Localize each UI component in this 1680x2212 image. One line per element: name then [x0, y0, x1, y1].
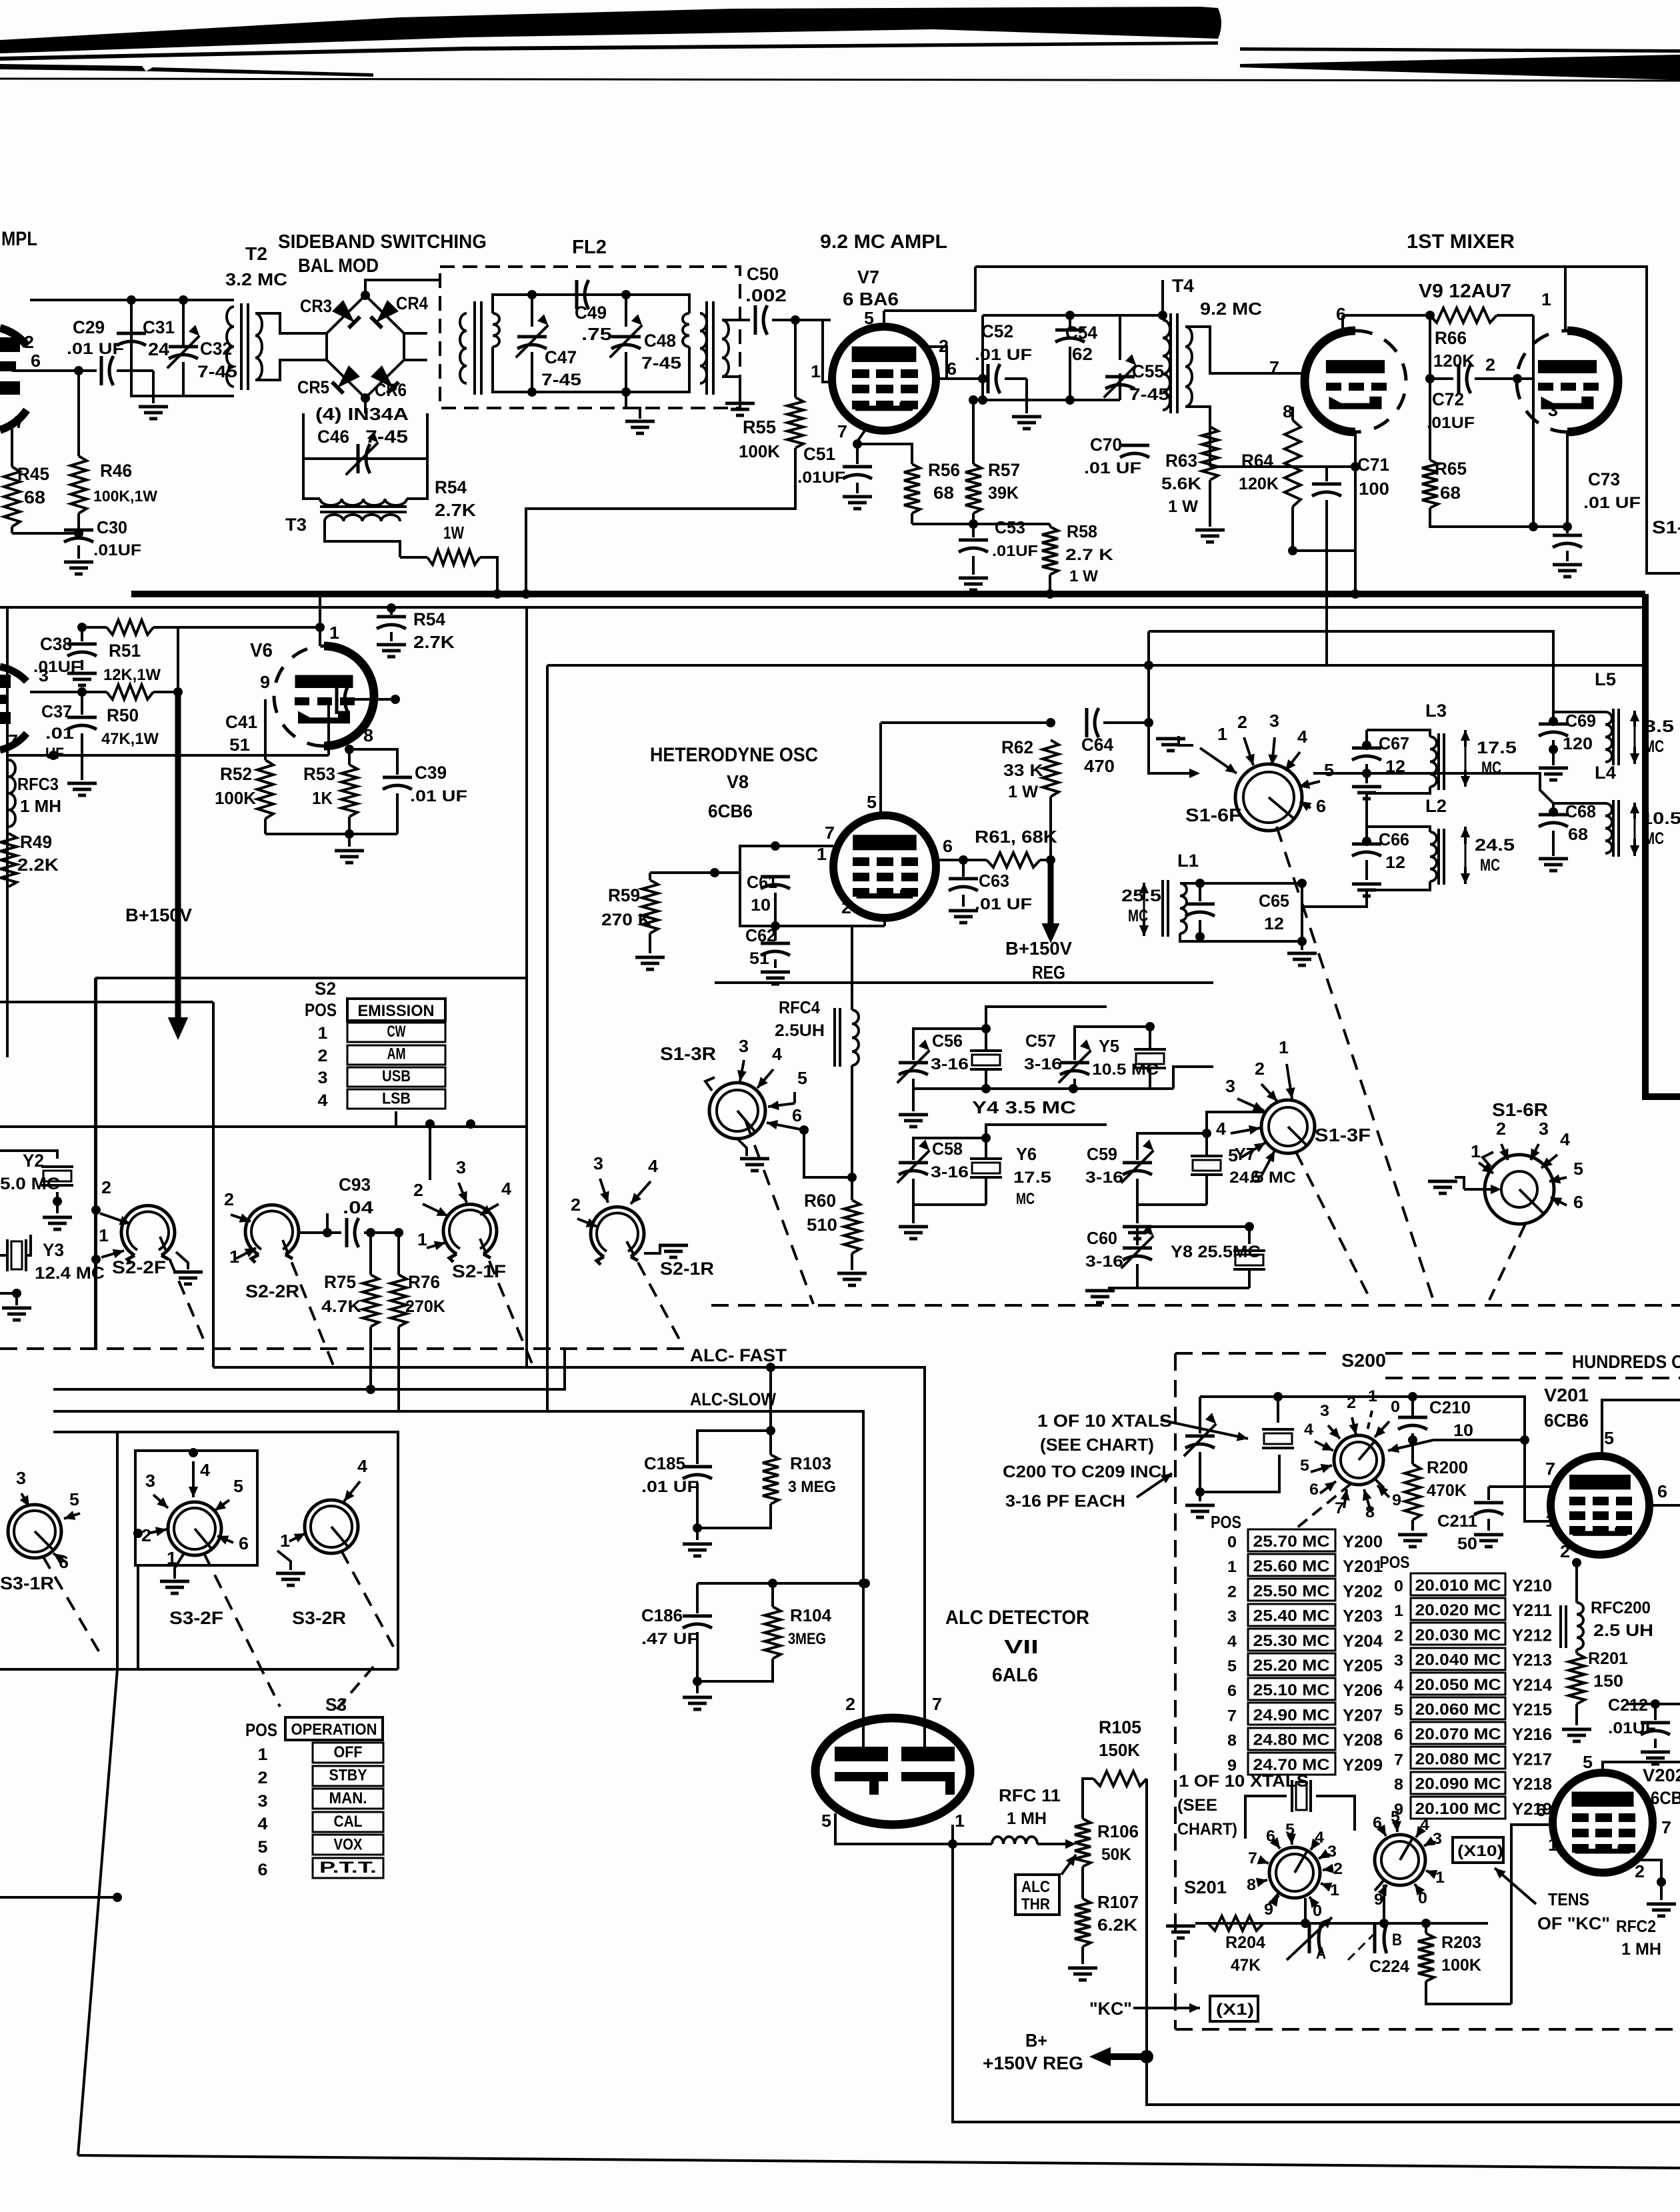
wire C54 bottom [1069, 363, 1071, 400]
wire R57 top [969, 379, 1070, 464]
svg-text:Y206: Y206 [1343, 1681, 1383, 1700]
svg-text:.01 UF: .01 UF [1583, 494, 1641, 512]
wire R51 right down [153, 627, 178, 692]
wire R59 row [650, 846, 740, 877]
label FL2 [572, 237, 607, 258]
S1-6R dashed gang [1489, 1224, 1525, 1300]
svg-text:(SEE: (SEE [1177, 1796, 1217, 1815]
svg-text:Y218: Y218 [1512, 1775, 1552, 1794]
svg-text:68: 68 [24, 487, 45, 507]
svg-text:24.80 MC: 24.80 MC [1253, 1731, 1330, 1749]
svg-text:S1-: S1- [1652, 517, 1680, 537]
tube V11 [815, 1718, 970, 1825]
svg-text:C67: C67 [1379, 733, 1409, 753]
label ALC DETECTOR [945, 1607, 1089, 1629]
svg-text:Y3: Y3 [43, 1240, 64, 1260]
wire T4 bottom [1185, 407, 1210, 467]
svg-text:6: 6 [1251, 1167, 1261, 1187]
rotary switch S1-6R [1485, 1099, 1554, 1224]
S2-1R dashed gang [627, 1241, 683, 1347]
scan artifact right band [1240, 47, 1680, 80]
svg-text:HUNDREDS OF: HUNDREDS OF [1572, 1351, 1680, 1372]
svg-text:CR4: CR4 [396, 293, 428, 313]
label HUNDREDS OF [1572, 1351, 1680, 1372]
svg-text:8: 8 [363, 725, 373, 745]
S200 n1 [1367, 1387, 1377, 1433]
variable capacitor C32 [167, 325, 237, 396]
svg-text:Y202: Y202 [1343, 1582, 1383, 1601]
svg-text:C61: C61 [747, 872, 777, 892]
svg-text:3: 3 [1227, 1608, 1237, 1626]
pin5 V201 [1604, 1428, 1614, 1448]
label BAL MOD [298, 255, 379, 277]
label R54 value [0, 0, 1, 1]
svg-text:62: 62 [1072, 344, 1093, 364]
svg-text:6: 6 [1657, 1481, 1667, 1501]
svg-text:4: 4 [772, 1044, 783, 1064]
svg-text:4: 4 [648, 1156, 659, 1176]
svg-text:9: 9 [1392, 1491, 1401, 1509]
S1-3F contact 4 [1216, 1119, 1260, 1139]
pin5 V202 [1583, 1752, 1680, 1773]
wire pin6 row [12, 369, 97, 372]
resistor R49 [1, 832, 59, 887]
S2-2R contact 1 [229, 1247, 256, 1267]
svg-text:.01 UF: .01 UF [410, 787, 467, 805]
pin5 V11 [821, 1811, 831, 1831]
thick signal bus wire [131, 591, 1645, 597]
S1-6F contact 5 [1299, 760, 1334, 789]
het box left [546, 665, 549, 1411]
S1 wafer ground [1287, 883, 1317, 965]
S2-1F contact 4 [466, 1119, 512, 1215]
X1 box [1210, 1996, 1258, 2021]
svg-text:2.5 UH: 2.5 UH [1593, 1621, 1653, 1640]
pin2 V9b [1485, 355, 1522, 383]
wire KC X1 to caps [0, 0, 1, 1]
svg-text:R75: R75 [324, 1272, 356, 1292]
svg-text:C56: C56 [932, 1031, 963, 1051]
svg-text:100: 100 [1359, 479, 1389, 499]
wire y1503 [0, 1002, 213, 1367]
ALC THR box [1015, 1855, 1076, 1915]
svg-text:B+150V: B+150V [1005, 938, 1072, 959]
variable capacitor C47 [516, 295, 581, 392]
svg-text:3: 3 [1320, 1402, 1329, 1420]
pin1 V11 [955, 1811, 965, 1831]
wire bal mod bottom left [364, 398, 367, 413]
svg-text:5: 5 [233, 1476, 243, 1496]
svg-text:5: 5 [1573, 1159, 1583, 1179]
svg-text:C210: C210 [1429, 1397, 1471, 1417]
tube V9 second triode [1517, 331, 1618, 432]
arrow to xtal [1161, 1420, 1248, 1441]
svg-text:3MEG: 3MEG [788, 1630, 826, 1648]
resistor R54 [427, 477, 480, 565]
svg-text:12K,1W: 12K,1W [103, 666, 161, 684]
svg-text:(X10): (X10) [1457, 1842, 1503, 1859]
svg-text:POS: POS [1211, 1512, 1241, 1532]
svg-text:.01 UF: .01 UF [67, 340, 124, 358]
svg-text:2.7 K: 2.7 K [1065, 546, 1114, 564]
pin6 V201 [1649, 1481, 1680, 1505]
wire R203 to V202 loop [1511, 1825, 1552, 2004]
svg-text:4: 4 [258, 1815, 268, 1833]
svg-text:RFC4: RFC4 [779, 997, 820, 1017]
resistor R55 [739, 320, 803, 461]
svg-text:6: 6 [258, 1861, 268, 1879]
svg-text:S201: S201 [1184, 1877, 1227, 1897]
S200 wire top [0, 0, 1, 1]
resistor R56 [857, 444, 960, 524]
svg-text:25.50 MC: 25.50 MC [1253, 1582, 1330, 1600]
svg-text:RFC2: RFC2 [1616, 1917, 1656, 1936]
scan artifact left hook [0, 64, 373, 77]
svg-text:6: 6 [1573, 1192, 1583, 1212]
S3-2F contact 5 [215, 1476, 243, 1511]
pin1 label V6 [329, 623, 339, 643]
tube V202 [1553, 1773, 1653, 1873]
S3-1R contact 5 [64, 1489, 80, 1520]
crystal Y2 [0, 1151, 73, 1229]
capacitor C37 [41, 692, 97, 795]
svg-text:OPERATION: OPERATION [291, 1721, 377, 1739]
svg-text:Y210: Y210 [1512, 1577, 1552, 1595]
svg-text:MC: MC [1644, 737, 1664, 756]
svg-text:100K: 100K [1441, 1956, 1481, 1975]
svg-text:C54: C54 [1065, 323, 1097, 343]
svg-text:2: 2 [1635, 1861, 1645, 1881]
svg-text:C39: C39 [415, 763, 447, 783]
switch S2-1R [591, 1207, 714, 1279]
svg-text:ALC- FAST: ALC- FAST [690, 1345, 787, 1365]
svg-text:1ST MIXER: 1ST MIXER [1407, 231, 1515, 253]
wire V201 grid [1525, 1440, 1553, 1521]
S201a numbers [1247, 1821, 1343, 1920]
wire L3 bottom [1367, 787, 1430, 793]
label CR4 [396, 293, 428, 313]
resistor R64 [1239, 407, 1301, 555]
svg-text:.01UF: .01UF [797, 469, 845, 487]
S1-3F contact 3 [1225, 1076, 1264, 1111]
svg-text:3: 3 [1394, 1652, 1403, 1670]
wire ALC-SLOW [53, 1411, 868, 1752]
tube V8 [833, 815, 936, 918]
svg-text:S3-2R: S3-2R [292, 1608, 346, 1628]
svg-text:25.20 MC: 25.20 MC [1253, 1657, 1330, 1675]
svg-text:0: 0 [1391, 1398, 1400, 1416]
wire T4 sec to V9 grid [1185, 327, 1240, 373]
svg-text:3-16: 3-16 [931, 1055, 969, 1073]
wire grid feed [832, 845, 835, 847]
svg-text:6: 6 [31, 351, 41, 371]
wire plate to T2 box [30, 299, 234, 301]
svg-text:S2-2R: S2-2R [245, 1281, 299, 1301]
svg-text:R106: R106 [1097, 1821, 1139, 1841]
box T2 tank [131, 300, 234, 396]
svg-text:25.40 MC: 25.40 MC [1253, 1607, 1330, 1625]
svg-text:B+: B+ [1025, 2030, 1047, 2051]
svg-text:100K: 100K [739, 441, 780, 461]
dashed box KC osc [1175, 1353, 1680, 2029]
V7 pin5 stem [884, 267, 975, 327]
svg-text:V7: V7 [857, 267, 879, 287]
capacitor C68 [1539, 801, 1596, 871]
svg-text:R45: R45 [17, 464, 49, 484]
svg-text:1: 1 [811, 361, 821, 381]
svg-text:EMISSION: EMISSION [358, 1002, 435, 1020]
FL2 input coil [460, 301, 481, 395]
svg-text:9.2 MC: 9.2 MC [1200, 299, 1262, 319]
svg-text:2: 2 [841, 897, 851, 917]
L1 25.5MC arrow [1121, 883, 1161, 936]
svg-text:RFC200: RFC200 [1591, 1599, 1651, 1617]
svg-text:1: 1 [1279, 1037, 1289, 1057]
svg-text:C185: C185 [644, 1453, 685, 1473]
S3 table [245, 1695, 383, 1879]
svg-text:100K: 100K [215, 788, 256, 808]
svg-text:REG: REG [1032, 962, 1065, 983]
resistor R106 pot [1075, 1819, 1139, 1867]
resistor R201 [1562, 1649, 1628, 1741]
svg-text:.01UF: .01UF [992, 542, 1038, 559]
svg-text:C62: C62 [745, 925, 776, 945]
svg-text:HETERODYNE OSC: HETERODYNE OSC [650, 744, 818, 766]
svg-text:25.70 MC: 25.70 MC [1253, 1533, 1330, 1551]
svg-text:R201: R201 [1588, 1649, 1628, 1668]
resistor R53 [303, 749, 357, 839]
svg-text:C63: C63 [979, 871, 1009, 891]
svg-text:150: 150 [1593, 1672, 1623, 1691]
wire L1 top to node [1180, 879, 1307, 888]
svg-text:LSB: LSB [382, 1090, 411, 1108]
resistor R50 [101, 685, 178, 748]
label ALC-FAST [690, 1345, 787, 1365]
dashed box S1 crystal section bottom [711, 1304, 1680, 1307]
capacitor C212 [1608, 1696, 1670, 1764]
wire L2 L3 join [1302, 793, 1367, 907]
svg-text:(SEE CHART): (SEE CHART) [1040, 1435, 1154, 1455]
svg-text:68: 68 [1440, 483, 1461, 503]
S3-2R contact 1 [276, 1531, 305, 1585]
svg-text:51: 51 [229, 735, 250, 755]
resistor R63 [1161, 427, 1225, 542]
label (4) IN34A [315, 404, 409, 424]
label HETERODYNE OSC [650, 744, 818, 766]
svg-text:C200 TO C209 INCL: C200 TO C209 INCL [1003, 1463, 1173, 1481]
svg-text:3: 3 [456, 1157, 466, 1177]
svg-text:V201: V201 [1544, 1385, 1589, 1405]
svg-text:510: 510 [807, 1215, 837, 1235]
dashed line ALC top [0, 1347, 687, 1350]
svg-text:Y219: Y219 [1512, 1800, 1552, 1819]
B+ arrow [1089, 2047, 1153, 2067]
svg-text:R104: R104 [790, 1605, 832, 1625]
wire R51 left [77, 623, 107, 632]
transformer T2 [227, 303, 262, 390]
S200 dashed gang [1293, 1484, 1351, 1531]
capacitor C49 [575, 280, 612, 344]
transformer T4 [1163, 275, 1262, 413]
label 6BA6 [843, 289, 899, 309]
capacitor C65 [1180, 879, 1289, 941]
S1-6R input wire [1428, 1177, 1501, 1194]
svg-text:R56: R56 [928, 460, 960, 480]
svg-text:1K: 1K [312, 788, 333, 808]
svg-text:S3-2F: S3-2F [169, 1608, 223, 1628]
junction pin6 [74, 366, 83, 375]
S3-2R dashed gang [341, 1551, 393, 1647]
capacitor C70 [1084, 435, 1210, 477]
S2-2R dashed gang [283, 1240, 333, 1365]
wire V9a plate up [0, 0, 1, 1]
crystal group Y7 [1085, 1112, 1296, 1239]
svg-text:100K,1W: 100K,1W [93, 487, 157, 505]
svg-text:2: 2 [101, 1177, 111, 1197]
label V202 [1643, 1765, 1680, 1808]
svg-text:.01: .01 [45, 725, 74, 743]
coil L2 [1367, 796, 1447, 885]
svg-text:R66: R66 [1435, 328, 1467, 348]
resistor R60 [804, 1177, 867, 1285]
pin3 V9b [1533, 400, 1572, 531]
FL2 ground [625, 392, 655, 433]
svg-text:Y201: Y201 [1343, 1557, 1383, 1576]
svg-text:C37: C37 [41, 701, 72, 721]
wire V6 box [6, 607, 9, 1057]
label 6AL6 [992, 1665, 1038, 1686]
thick signal bus vertical [1645, 594, 1680, 1097]
svg-text:C47: C47 [545, 347, 577, 367]
S3-2F contact 2 [133, 1525, 167, 1545]
pin1 V202 [1548, 1835, 1558, 1855]
S1-6R contact 2 [1496, 1119, 1509, 1160]
switch S2-2R [245, 1205, 299, 1301]
svg-text:4: 4 [1216, 1119, 1227, 1139]
svg-text:20.020 MC: 20.020 MC [1415, 1601, 1501, 1619]
FL2 inner left coil [493, 313, 499, 347]
S2 section top line [0, 1125, 527, 1128]
svg-text:20.030 MC: 20.030 MC [1415, 1626, 1501, 1644]
label S201 [1184, 1877, 1227, 1897]
resistor R105 [1083, 1717, 1147, 2055]
capacitor C51 [797, 444, 872, 509]
S2-1F contact 3 [425, 1119, 467, 1203]
svg-text:MC: MC [1016, 1190, 1035, 1208]
wire C50 to grid node [772, 315, 831, 325]
svg-text:2: 2 [413, 1180, 423, 1200]
RFC11 [953, 1785, 1076, 1849]
svg-text:C64: C64 [1081, 735, 1113, 755]
svg-text:R65: R65 [1435, 459, 1467, 479]
dashed box S1 crystal left [0, 0, 1, 1]
svg-text:.01UF: .01UF [1427, 414, 1475, 432]
svg-text:C211: C211 [1437, 1512, 1477, 1531]
switch S2-1F [443, 1204, 506, 1281]
svg-text:5: 5 [821, 1811, 831, 1831]
S1-3R contact 6 [767, 1105, 809, 1135]
wire t4 top to bus? [1161, 280, 1164, 315]
wire V8 plate row [881, 718, 1055, 727]
resistor R51 [103, 620, 161, 684]
wire S2 table stem [395, 1111, 397, 1127]
svg-text:2.5UH: 2.5UH [775, 1021, 825, 1040]
svg-text:120: 120 [1563, 735, 1593, 753]
svg-text:1: 1 [1227, 1558, 1237, 1576]
junction C54 [983, 311, 1075, 379]
tube V5b cut left [0, 667, 27, 750]
tube V201 [1551, 1456, 1649, 1555]
svg-text:12: 12 [1385, 853, 1405, 872]
svg-text:20.100 MC: 20.100 MC [1415, 1800, 1501, 1818]
capacitor C39 [349, 749, 467, 834]
wire C30 row [12, 527, 79, 533]
S2-1R right gnd [644, 1245, 660, 1253]
svg-text:S1-3F: S1-3F [1315, 1125, 1371, 1145]
bal mod node top [365, 280, 440, 295]
vertical x176 [78, 1432, 117, 2155]
svg-text:T3: T3 [285, 515, 307, 535]
svg-text:5: 5 [867, 792, 877, 812]
svg-text:12.4 MC: 12.4 MC [35, 1264, 105, 1283]
scan artifact page split line [0, 79, 1680, 81]
svg-text:20.040 MC: 20.040 MC [1415, 1651, 1501, 1669]
svg-text:S2: S2 [315, 979, 336, 999]
svg-text:C38: C38 [40, 634, 72, 654]
svg-text:20.070 MC: 20.070 MC [1415, 1725, 1501, 1743]
S1-3F contact 1 [1279, 1037, 1295, 1099]
svg-text:S3: S3 [325, 1695, 347, 1715]
svg-text:ALC-SLOW: ALC-SLOW [690, 1389, 776, 1409]
crystal chart S201 (Y210-Y219) [1380, 1553, 1553, 1819]
svg-text:S2-2F: S2-2F [112, 1257, 166, 1277]
svg-text:0: 0 [1394, 1577, 1403, 1595]
svg-text:4: 4 [501, 1179, 512, 1199]
svg-text:C60: C60 [1087, 1228, 1117, 1248]
capacitor C41 [225, 685, 400, 755]
pin2 V11 [845, 1694, 855, 1714]
svg-text:2: 2 [1237, 712, 1247, 732]
junction T4 top [1070, 311, 1167, 320]
capacitor C53 [959, 517, 1038, 590]
svg-text:270 K: 270 K [601, 911, 651, 929]
S2-1R contact 4 [631, 1156, 659, 1204]
svg-text:+150V REG: +150V REG [983, 2053, 1083, 2073]
variable capacitor C55 [1065, 315, 1169, 405]
svg-text:4: 4 [1304, 1421, 1314, 1439]
svg-text:C65: C65 [1259, 891, 1289, 911]
label CR3 [300, 296, 332, 316]
label 1 OF 10 XTALS 2 [1177, 1772, 1309, 1839]
svg-text:6CB6: 6CB6 [1544, 1410, 1589, 1431]
varcap A [1316, 1923, 1326, 1963]
svg-text:24.90 MC: 24.90 MC [1253, 1706, 1330, 1724]
svg-text:(4) IN34A: (4) IN34A [315, 404, 409, 424]
svg-text:1: 1 [417, 1229, 427, 1249]
label V8 [727, 771, 749, 792]
label C200 TO C209 INCL [1003, 1463, 1173, 1481]
svg-text:V6: V6 [250, 640, 273, 661]
svg-text:20.050 MC: 20.050 MC [1415, 1676, 1501, 1694]
FL2 tank box [493, 295, 689, 392]
svg-text:.01 UF: .01 UF [641, 1478, 699, 1496]
S3-2R contact 4 [344, 1456, 368, 1501]
svg-text:6.2K: 6.2K [1097, 1916, 1137, 1935]
coil L5 [1595, 669, 1619, 765]
B+150V arrow [125, 692, 192, 1040]
label 1ST MIXER [1407, 231, 1515, 253]
S1-3F dashed gang [1296, 1152, 1371, 1300]
